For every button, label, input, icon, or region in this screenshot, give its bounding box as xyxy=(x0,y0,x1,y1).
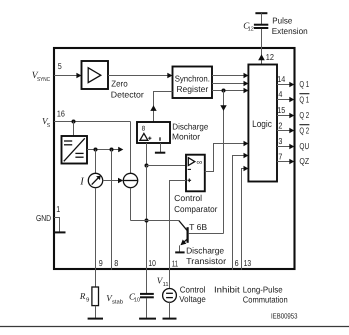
wire logic output QZ xyxy=(277,161,290,163)
input tick in monitor xyxy=(159,137,161,141)
svg-text:Voltage: Voltage xyxy=(179,294,206,304)
svg-text:9: 9 xyxy=(99,258,103,268)
svg-text:Commutation: Commutation xyxy=(243,295,288,305)
svg-text:1: 1 xyxy=(56,204,60,214)
IC outline box xyxy=(54,48,295,269)
svg-text:Q 1: Q 1 xyxy=(299,79,309,89)
wire base to riser xyxy=(189,233,224,235)
wire pin 1 to ground xyxy=(54,218,60,232)
wire logic output Q2 xyxy=(277,115,290,117)
wire junction down to discharge transistor base xyxy=(223,91,225,234)
svg-text:Pulse: Pulse xyxy=(272,16,292,26)
arrow into zero detector xyxy=(76,73,81,79)
svg-text:Long-Pulse: Long-Pulse xyxy=(243,284,283,294)
svg-text:15: 15 xyxy=(277,105,285,115)
wire synchron register output 3 xyxy=(212,90,245,92)
wire discharge monitor to synchron register xyxy=(154,92,173,123)
svg-text:10: 10 xyxy=(148,258,156,268)
ground at emitter xyxy=(175,251,184,253)
svg-text:10: 10 xyxy=(134,297,140,304)
svg-text:Transistor: Transistor xyxy=(186,256,226,266)
svg-text:3: 3 xyxy=(278,136,282,146)
ground at pin 1 xyxy=(54,231,66,233)
wire current source 1 to pin 9 xyxy=(95,188,97,270)
wire pin5 to zero detector xyxy=(54,75,78,77)
svg-text:stab: stab xyxy=(112,298,123,305)
wire synchron register output 1 xyxy=(212,75,245,77)
svg-text:Extension: Extension xyxy=(272,26,308,36)
wire synchron register output 2 xyxy=(212,83,245,85)
wire pin 13 riser xyxy=(242,169,245,270)
arrow down on base wire xyxy=(220,105,226,111)
wire logic output Q1bar xyxy=(277,99,290,101)
node junction regulator rail to pin 8 xyxy=(110,148,114,152)
capacitor C12 top terminal xyxy=(255,12,267,14)
svg-text:6: 6 xyxy=(235,258,239,268)
ground below R9 xyxy=(88,318,103,320)
svg-text:T 6B: T 6B xyxy=(189,222,207,232)
svg-text:QU: QU xyxy=(299,141,309,151)
wire logic output Q1 xyxy=(277,84,290,86)
logic block U6 xyxy=(248,65,277,182)
svg-text:11: 11 xyxy=(163,282,169,288)
svg-text:Q 2: Q 2 xyxy=(299,110,309,120)
wire VS rail down to current source 2 xyxy=(130,122,132,174)
register U2 synchron register xyxy=(173,67,213,99)
wire source to ground xyxy=(169,302,171,318)
svg-text:Synchron.: Synchron. xyxy=(175,73,210,83)
wire pin 10 to capacitor xyxy=(146,270,148,293)
node junction on output 3 xyxy=(222,89,226,93)
regulator U4 xyxy=(62,136,88,164)
capacitor C10 xyxy=(140,293,154,295)
svg-text:16: 16 xyxy=(57,108,65,118)
transistor Q1 T6B collector diagonal xyxy=(179,221,188,231)
svg-text:5: 5 xyxy=(58,61,62,71)
capacitor C12 xyxy=(254,24,268,26)
svg-text:8: 8 xyxy=(114,258,118,268)
transistor emitter diagonal xyxy=(181,239,187,245)
svg-text:Q 1: Q 1 xyxy=(299,94,309,104)
wire pin 6 riser xyxy=(233,156,245,270)
svg-text:IEB00953: IEB00953 xyxy=(271,311,298,320)
arrow pin 6 into logic xyxy=(244,153,249,159)
wire junction to regulator xyxy=(73,122,75,137)
svg-text:14: 14 xyxy=(277,74,285,84)
wire ramp node down to pin 10 xyxy=(146,166,148,270)
wire pin 8 stab xyxy=(111,150,113,270)
resistor R9 xyxy=(92,287,99,306)
current source I1 xyxy=(88,173,102,187)
comparator U3 discharge monitor xyxy=(137,122,170,143)
svg-text:Register: Register xyxy=(176,84,208,94)
wire logic output Q2bar xyxy=(277,130,290,132)
plus mark xyxy=(188,179,192,181)
wire regulator output rail xyxy=(87,149,120,151)
svg-text:Detector: Detector xyxy=(111,89,144,99)
ground below C10 xyxy=(139,318,156,320)
node junction on VS rail xyxy=(72,120,76,124)
arrow up at pin 12 xyxy=(258,54,265,60)
svg-text:GND: GND xyxy=(36,213,51,223)
node junction ramp and discharge line xyxy=(145,219,149,223)
wire pin 11 riser to comparator plus xyxy=(170,181,187,289)
wire C12 terminal to plate xyxy=(261,13,263,24)
svg-text:12: 12 xyxy=(248,25,254,32)
wire discharge line to transistor xyxy=(131,220,179,222)
comparator U5 control comparator xyxy=(186,155,205,192)
node junction at comparator minus xyxy=(145,164,149,168)
arrow up on monitor wire xyxy=(150,105,156,111)
svg-text:9: 9 xyxy=(86,296,89,303)
svg-text:I: I xyxy=(79,176,84,187)
arrow into synchron register xyxy=(167,73,172,79)
voltage source V11 xyxy=(163,289,177,303)
arrow pin 13 into logic xyxy=(244,166,249,172)
wire resistor to ground xyxy=(95,306,97,318)
svg-text:Inhibit: Inhibit xyxy=(214,284,240,294)
transistor base bar xyxy=(187,227,189,243)
arrow into current source 2 xyxy=(118,178,123,184)
plus mark in monitor xyxy=(148,137,151,139)
wire zero detector to synchron register xyxy=(108,75,168,77)
arrow comparator output into logic xyxy=(244,141,249,147)
node junction regulator rail to current source 1 xyxy=(94,148,98,152)
wire C12 to logic pin 12 xyxy=(261,29,263,65)
svg-text:Discharge: Discharge xyxy=(186,246,224,256)
svg-text:Discharge: Discharge xyxy=(172,121,208,131)
svg-text:12: 12 xyxy=(266,52,274,62)
svg-text:R: R xyxy=(79,291,86,301)
svg-text:Monitor: Monitor xyxy=(172,131,200,141)
current source I2 xyxy=(123,173,137,187)
wire current source 2 down xyxy=(130,188,132,221)
wire current source 1 to current source 2 xyxy=(103,180,120,182)
svg-text:4: 4 xyxy=(278,89,282,99)
svg-text:Control: Control xyxy=(174,193,202,203)
svg-text:11: 11 xyxy=(172,259,178,269)
wire junction to comparator minus input xyxy=(147,165,187,167)
svg-text:Q 2: Q 2 xyxy=(299,125,309,135)
arrow at end of regulator rail xyxy=(118,147,123,153)
svg-text:Logic: Logic xyxy=(252,119,272,130)
svg-text:∞: ∞ xyxy=(196,159,202,166)
wire capacitor to ground xyxy=(146,298,148,318)
svg-text:Zero: Zero xyxy=(111,79,128,89)
minus mark xyxy=(188,168,191,170)
wire monitor output down xyxy=(146,143,148,166)
ground below monitor xyxy=(155,152,165,154)
wire emitter down xyxy=(179,245,181,251)
svg-text:QZ: QZ xyxy=(299,156,309,166)
svg-text:8: 8 xyxy=(142,126,146,133)
ground below V11 xyxy=(163,318,177,320)
wire comparator output to logic xyxy=(205,144,245,172)
svg-text:SYNC: SYNC xyxy=(37,76,50,83)
page separator line xyxy=(0,326,349,328)
op-amp zero detector U1 xyxy=(82,61,109,89)
wire pin 16 rail xyxy=(54,121,131,123)
svg-text:Comparator: Comparator xyxy=(174,204,217,214)
wire monitor to ground xyxy=(160,143,162,152)
svg-text:Control: Control xyxy=(180,284,206,294)
wire logic output QU xyxy=(277,146,290,148)
wire pin 9 to resistor xyxy=(95,270,97,287)
svg-text:S: S xyxy=(47,122,51,129)
svg-text:13: 13 xyxy=(244,258,252,268)
svg-text:2: 2 xyxy=(278,120,282,130)
svg-text:7: 7 xyxy=(278,151,282,161)
wire down to current source 1 xyxy=(95,150,97,174)
